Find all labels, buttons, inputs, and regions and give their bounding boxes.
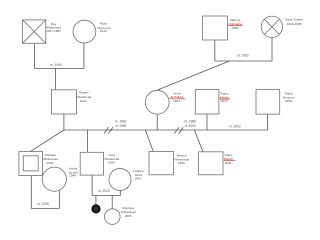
- label Anna: [170, 91, 183, 103]
- label Arvilla: [68, 167, 78, 178]
- wire family line: [64, 129, 268, 131]
- svg-text:d. 2000: d. 2000: [185, 124, 196, 128]
- label Ruby: [97, 22, 110, 34]
- wire Edith descent to marriage: [271, 38, 273, 62]
- label MarcusA: [229, 18, 242, 30]
- svg-text:1980-: 1980-: [178, 161, 186, 165]
- svg-text:2005: 2005: [125, 214, 132, 218]
- svg-text:m. 1989: m. 1989: [184, 120, 196, 124]
- person Edite Tudder (deceased female circle with X): [261, 16, 282, 37]
- label Monique: [121, 206, 136, 218]
- wire descent to Anna: [158, 61, 230, 90]
- wire Arvilla to marriage: [58, 191, 60, 209]
- wire marriage MarcusA+Edith: [215, 60, 272, 62]
- wire Robert to family line: [63, 114, 65, 130]
- label Robert: [76, 91, 91, 104]
- marriage m.1989 d.2000: [184, 120, 196, 128]
- person Monique Whitehead (female circle small): [105, 209, 121, 225]
- wire Fabrice to marriage: [119, 190, 121, 195]
- svg-text:1944-: 1944-: [173, 99, 181, 103]
- wire Vera to marriage: [91, 175, 93, 195]
- wire child line Vera: [87, 130, 89, 152]
- svg-text:1940-1985: 1940-1985: [287, 22, 302, 26]
- label Edith: [285, 18, 303, 26]
- wire child line Monique: [111, 196, 113, 209]
- person Robert Whitehead (male square): [51, 90, 76, 114]
- svg-text:m. 1960: m. 1960: [237, 54, 249, 58]
- person Ray Whitehead (deceased male square with X): [23, 20, 46, 43]
- svg-text:m. 1981: m. 1981: [115, 120, 127, 124]
- person Michael Whitehead (double-bordered square): [19, 152, 43, 176]
- wire MarcusA descent to marriage: [214, 40, 216, 61]
- svg-text:1971-: 1971-: [220, 99, 228, 103]
- person Anna Archuleta (female circle): [145, 90, 169, 114]
- person Ruby Simmons (female circle): [73, 20, 96, 43]
- svg-text:1990-: 1990-: [224, 161, 232, 165]
- person Marcus Whitehead (male square): [149, 152, 173, 175]
- svg-text:1916-: 1916-: [100, 29, 108, 33]
- svg-text:1948-: 1948-: [69, 174, 77, 178]
- wire Anna to family line: [156, 114, 158, 130]
- marriage m.1981 d.1990: [115, 120, 127, 128]
- person Stacy Kassin (male square): [195, 90, 219, 114]
- svg-text:1959-: 1959-: [285, 99, 293, 103]
- label Claire: [224, 153, 234, 165]
- svg-text:1938-: 1938-: [231, 26, 239, 30]
- wire Stacy to family line: [206, 114, 208, 130]
- svg-text:Robert: Robert: [79, 91, 88, 95]
- person Marla Bottoms (male square): [256, 90, 280, 115]
- wire child line Michael: [30, 130, 64, 152]
- person small filled circle child: [92, 205, 99, 212]
- label Stacy: [220, 92, 230, 104]
- svg-text:m. 2008: m. 2008: [37, 202, 49, 206]
- wire child line MarcusW: [145, 130, 153, 152]
- wire child line Claire: [194, 130, 203, 152]
- label Ray: [46, 22, 61, 33]
- person Arvilla Jacobs (female circle): [42, 167, 66, 191]
- label Michael: [43, 153, 58, 165]
- wire Ray descent to marriage: [33, 43, 35, 68]
- wire descent to Robert: [55, 68, 57, 89]
- svg-text:m. 1940: m. 1940: [50, 63, 62, 67]
- person Fabrice Jones (female circle): [109, 168, 131, 190]
- person Claire Kassin (square): [199, 152, 223, 175]
- person Vera Whitehead (square): [80, 152, 103, 175]
- svg-text:1941-: 1941-: [80, 99, 88, 103]
- svg-text:1917-1981: 1917-1981: [46, 29, 61, 33]
- person Marcus Archuleta (male square): [203, 16, 228, 40]
- wire marriage Ray+Ruby: [34, 67, 84, 69]
- wire Ruby descent to marriage: [83, 43, 85, 68]
- svg-text:1960-: 1960-: [108, 161, 116, 165]
- wire Marla to family line: [267, 114, 269, 130]
- wire child line dot: [95, 196, 97, 205]
- wire Michael to marriage: [30, 176, 32, 209]
- label Fabrice: [133, 169, 144, 180]
- divorce slashes Anna-Stacy: [174, 127, 179, 133]
- label Vera: [104, 153, 119, 164]
- wire marriage Vera+Fabrice: [92, 195, 120, 197]
- wire marriage Michael+Arvilla: [31, 207, 59, 209]
- svg-text:m. 2003: m. 2003: [98, 189, 110, 193]
- label MarcusW: [174, 154, 189, 166]
- svg-text:1962-: 1962-: [47, 161, 55, 165]
- svg-text:m. 2002: m. 2002: [229, 124, 241, 128]
- divorce slashes Robert-Anna: [104, 127, 109, 133]
- label Marla: [283, 92, 295, 104]
- svg-text:1967-: 1967-: [134, 177, 142, 181]
- svg-text:d. 1990: d. 1990: [116, 124, 127, 128]
